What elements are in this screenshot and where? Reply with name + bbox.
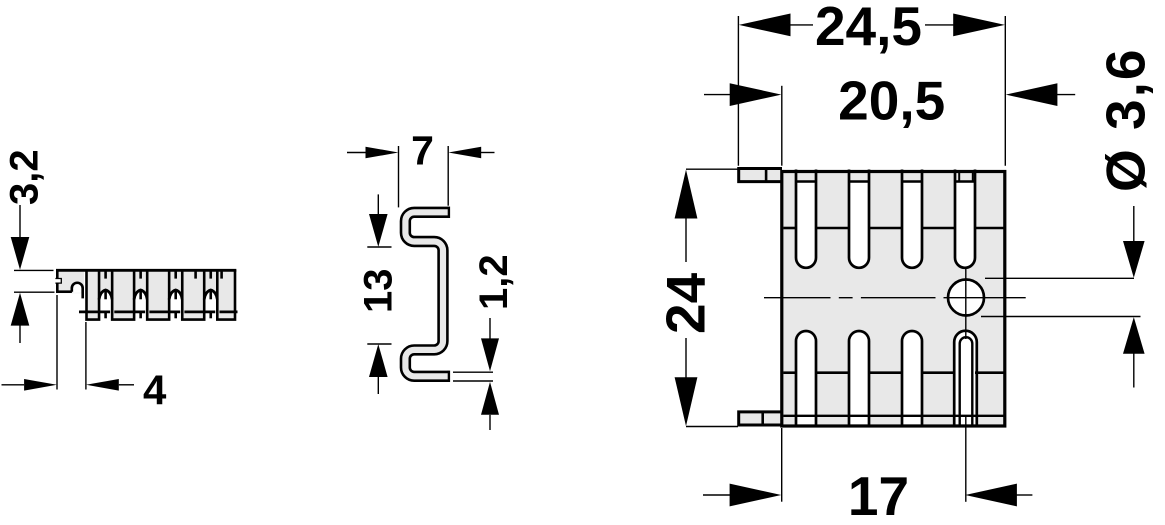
svg-text:Ø 3,6: Ø 3,6 xyxy=(1095,47,1157,192)
dimension 20,5 extension line xyxy=(781,86,783,166)
left view finger curl arches xyxy=(99,290,112,300)
diameter 3,6 upper arrow xyxy=(1133,206,1135,246)
left view slot cutouts xyxy=(99,290,112,318)
dimension 24 lower arrow xyxy=(675,377,698,426)
dimension 24 extension lines xyxy=(686,168,738,170)
svg-text:3,2: 3,2 xyxy=(3,149,47,205)
diameter 3,6 lower arrow xyxy=(1123,317,1145,354)
dimension 24 upper arrow xyxy=(675,170,698,219)
dimension 7 right arrow xyxy=(448,147,481,159)
channel profile outline xyxy=(405,212,448,376)
horizontal center line xyxy=(764,297,831,299)
left tabs fill xyxy=(739,169,782,182)
dimension 4 right arrow xyxy=(86,379,119,391)
white region below left block xyxy=(30,293,85,403)
bottom row slot outlines xyxy=(796,331,816,426)
svg-text:20,5: 20,5 xyxy=(838,70,945,132)
dimension 3,2 upper arrow xyxy=(19,205,21,240)
left view rolled-tip edge line xyxy=(79,310,110,313)
svg-text:4: 4 xyxy=(143,367,167,414)
top-left tab outline xyxy=(739,169,782,182)
top flange bend line xyxy=(783,227,796,230)
bottom slot 4 outer outline xyxy=(954,331,977,426)
bottom row slot whites xyxy=(797,332,815,424)
dimension 3,2 lower arrow xyxy=(11,293,30,326)
dimension 4 left arrow xyxy=(2,384,25,386)
dimension 17 extension lines xyxy=(781,428,783,502)
dimension 17 arrows xyxy=(703,494,732,496)
dimension 24,5 extension lines xyxy=(737,16,739,166)
dimension 20,5 arrows xyxy=(704,94,732,96)
profile end caps xyxy=(448,207,450,218)
mounting hole xyxy=(948,280,984,316)
svg-text:7: 7 xyxy=(411,128,434,174)
dimension 24,5 arrows xyxy=(739,14,791,37)
left block bottom edge xyxy=(56,290,72,293)
vertical center line xyxy=(965,267,967,339)
dimension 3,2 extension lines xyxy=(14,269,54,271)
bottom flange bend line xyxy=(783,371,796,374)
dimension 1,2 extension lines xyxy=(453,371,493,373)
svg-text:1,2: 1,2 xyxy=(472,254,516,310)
left view fin outlines xyxy=(87,270,100,320)
bottom band line xyxy=(783,415,1003,417)
left block left edge with notch xyxy=(56,269,59,293)
dimension 7 extension lines xyxy=(398,146,400,207)
left view slot center ticks xyxy=(104,271,107,279)
dimension 4 extension lines xyxy=(56,295,58,390)
left view top edge xyxy=(56,269,236,272)
top slot 4 band inner lines xyxy=(958,170,960,182)
svg-text:13: 13 xyxy=(357,269,401,314)
extra top ticks xyxy=(194,271,197,279)
right view body outline xyxy=(782,172,1005,427)
dimension 13 upper arrow xyxy=(377,194,379,218)
bottom-left tab outline xyxy=(739,412,782,425)
dimension 7 left arrow xyxy=(347,152,367,154)
dimension 1,2 upper arrow xyxy=(489,318,491,341)
svg-text:17: 17 xyxy=(848,465,909,525)
left view fin bottom fills xyxy=(87,300,100,320)
dimension 13 extension lines xyxy=(367,246,391,248)
right view body fill xyxy=(782,171,1005,425)
dimension 13 lower arrow xyxy=(369,344,388,377)
bottom slot 4 inner outline xyxy=(960,337,973,426)
top row slot whites xyxy=(797,183,815,267)
svg-text:24: 24 xyxy=(655,272,717,334)
top row slot outlines xyxy=(796,170,816,268)
dimension 1,2 lower arrow xyxy=(481,382,499,415)
bottom slot 4 white xyxy=(954,331,976,424)
hole tangent extension lines xyxy=(985,277,1134,279)
left view base plate fill xyxy=(56,269,236,313)
svg-text:24,5: 24,5 xyxy=(815,0,922,57)
rolled lip hook xyxy=(73,284,81,293)
